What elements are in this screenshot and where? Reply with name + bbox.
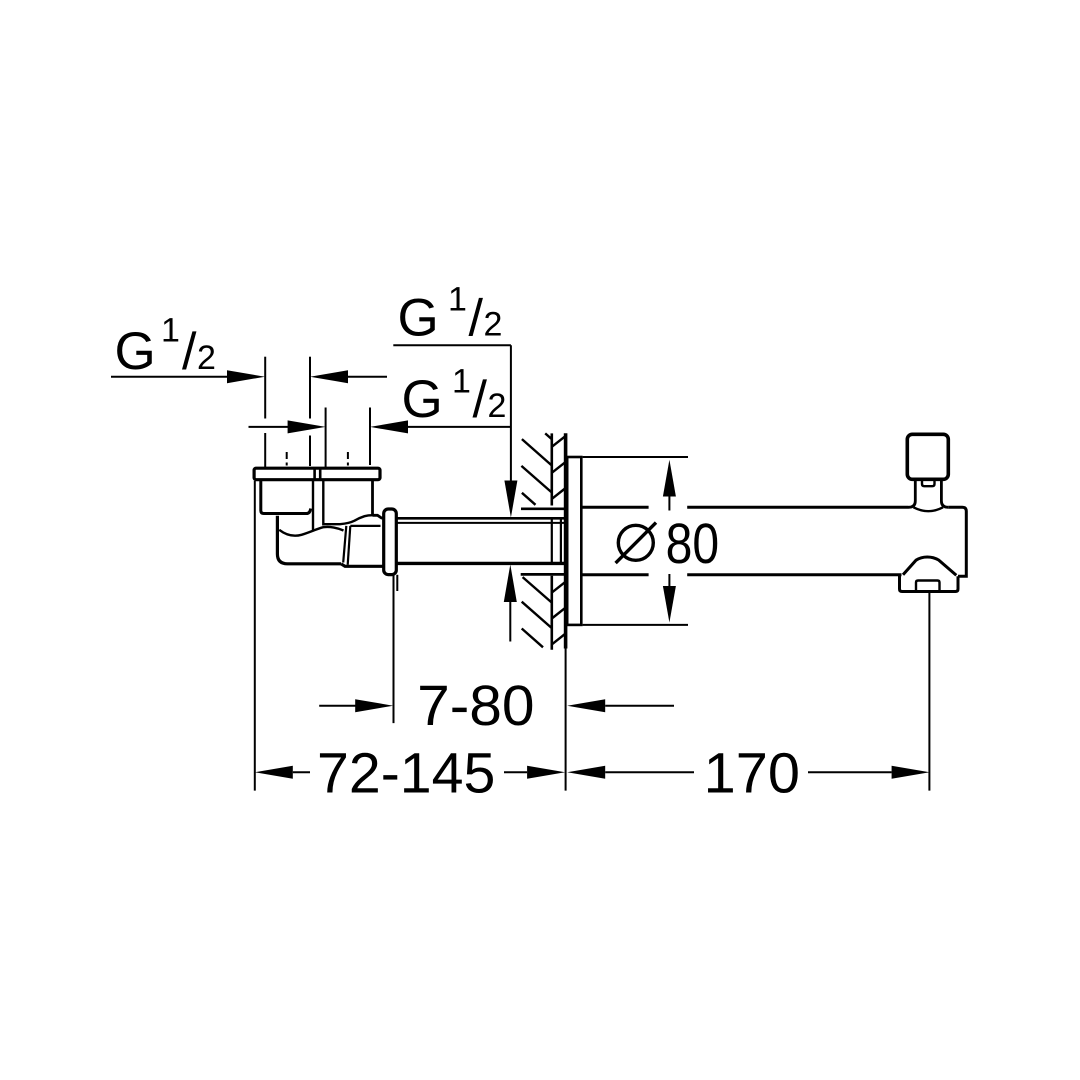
extension union nut (7-80) [393,575,395,723]
extension wall face lower [565,649,567,791]
elbow outlet top [373,515,385,518]
svg-text:170: 170 [704,741,800,805]
elbow outlet bottom [341,564,384,567]
diverter knob [907,434,948,479]
stem saddle [914,507,944,511]
shank end vertical 1 [551,518,553,563]
outlet shoulder line [350,525,380,527]
arrow A left-pointing [310,370,348,383]
dia80 extension bottom [583,624,688,626]
wall hole top edge [521,507,565,510]
extension line inlet1 right [309,357,311,419]
arrow B right-pointing [288,420,326,433]
outlet housing [900,575,959,592]
union nut [384,509,397,575]
svg-text:80: 80 [666,512,720,576]
centerline inlet2 [347,452,349,459]
wall trunk upper [550,433,553,505]
knob inner tab [922,479,935,486]
extension line inlet1 left [264,357,266,419]
label G1/2 top-left [117,318,214,369]
dia80 arrow up [663,460,676,497]
center divider lines [312,480,314,531]
elbow body outline [277,516,341,564]
dim row A leader (left G1/2) [111,376,227,378]
flange plate [254,468,380,480]
wall hatch upper long [521,433,551,504]
arrow down to shank top [504,481,517,518]
extension spout outlet (170) [928,592,930,791]
dia80 arrow down [663,586,676,623]
dim row C (7-80) left part [319,705,356,707]
dia80 extension top [583,456,688,458]
dim row D2 (170) [567,766,605,779]
shank shoulder edge below nut [396,575,398,591]
outlet dome [903,557,956,575]
wall hatch upper chevrons [552,436,565,499]
aerator slot [916,581,940,592]
wall trunk lower [550,576,553,650]
label G1/2 mid-center [404,369,505,417]
cast wave curve [279,527,343,536]
shank bottom edge [392,562,565,565]
extension line inlet2 left [325,408,327,469]
left union cup walls [261,480,311,514]
centerline inlet1 [286,452,288,459]
knob stem [909,479,949,507]
flange divider lines [313,468,316,480]
wall hatch lower long [522,577,552,647]
shank end vertical 2 [560,518,562,563]
right union cup right wall [371,480,374,516]
right cup bottom curve [323,515,372,524]
arrow B left-pointing [370,420,408,433]
spout bottom line [581,573,901,576]
underline mid G1/2 [408,426,511,428]
dim row B tail [249,426,289,428]
label dia-80 [616,512,720,576]
wall hole bottom edge [521,573,565,576]
svg-text:72-145: 72-145 [317,741,495,805]
dim row D (72-145) [255,766,293,779]
wall hatch lower chevrons [552,582,565,644]
svg-text:7-80: 7-80 [417,674,535,738]
spout top right corner + right edge [948,507,966,576]
underline top G1/2 [393,344,511,346]
spout top line [581,506,908,509]
arrow up to shank bottom [504,565,517,603]
extension left (72-145) [254,481,256,791]
shank thread line [392,522,565,524]
cast joint slant lines [343,526,346,563]
label G1/2 top-center [400,287,501,336]
extension line inlet2 right [369,408,371,466]
shank top edge [392,517,565,520]
arrow A right-pointing [227,370,265,383]
vertical to down-arrow (shank thread) [510,345,512,481]
dim row C right part [567,699,605,712]
wall face line [564,433,568,648]
